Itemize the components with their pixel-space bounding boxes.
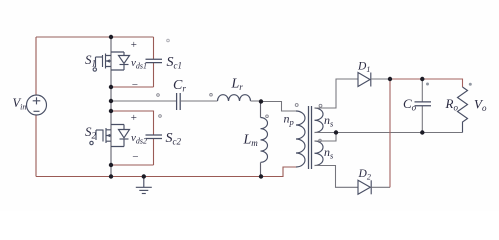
inductor Lr [218,95,251,101]
wire bottom rail [36,167,296,177]
resistor Ro [458,87,468,133]
transformer secondary ns bottom [315,141,324,166]
svg-text:D2: D2 [358,168,371,182]
svg-text:Vo: Vo [474,97,487,114]
node terminal markers [157,39,322,142]
svg-text:np: np [284,112,294,128]
wire Cr to Lr [180,100,217,102]
svg-text:−: − [132,151,139,163]
svg-text:−: − [131,79,138,91]
capacitor Sc1 plates [146,59,163,62]
svg-text:S1: S1 [85,52,96,69]
svg-text:ns: ns [324,113,334,129]
svg-text:Cr: Cr [173,78,186,94]
capacitor Sc2 branch [111,111,154,165]
wire switch node to Cr [111,100,176,102]
inductor Lm [261,102,268,177]
svg-text:vds1: vds1 [131,57,147,71]
transformer primary np [296,111,305,167]
svg-text:ns: ns [324,145,334,161]
svg-text:Lm: Lm [243,133,259,149]
svg-text:Ro: Ro [445,96,459,113]
diode D1 [358,73,371,87]
transistor S1 (MOSFET with body diode) [93,52,129,71]
svg-text:S2: S2 [85,124,97,141]
wire node to primary [261,102,296,112]
wire top rail [36,36,154,38]
wire secondary bottom to D2 [315,166,359,188]
ground [136,177,152,194]
transformer secondary ns top [315,108,324,133]
capacitor Co plates [415,102,432,106]
wire Lr to node [251,100,262,102]
svg-text:+: + [130,39,137,51]
svg-text:Sc2: Sc2 [166,131,182,147]
arrow S1 [106,59,110,63]
wire left vertical lower [35,115,37,177]
svg-text:Vin: Vin [13,96,27,112]
svg-text:+: + [130,112,137,124]
wire center tap [315,133,463,142]
capacitor Sc1 branch [111,37,154,87]
wire left vertical upper [35,37,37,95]
voltage source Vin [27,95,47,115]
transistor S2 (MOSFET with body diode) [90,125,130,147]
svg-text:vds2: vds2 [131,132,147,146]
wire D2 to riser [371,186,390,188]
diode D2 [358,180,371,194]
svg-text:Co: Co [403,96,417,113]
svg-text:Sc1: Sc1 [167,55,183,71]
capacitor Cr [177,93,181,110]
transformer core [309,106,312,169]
wire secondary top to D1 [315,79,359,108]
bus vertical (switch leg) [110,37,112,177]
wire D1 to node [371,78,390,80]
capacitor Sc2 plates [146,135,163,139]
marker output + [426,83,429,86]
arrow S2 [107,134,111,138]
capacitor Co branch [421,79,423,133]
svg-text:D1: D1 [357,61,370,75]
marker output v [469,83,472,86]
svg-text:Lr: Lr [231,77,244,93]
wire output top rail [390,79,463,87]
wire rectifier riser [389,79,391,187]
